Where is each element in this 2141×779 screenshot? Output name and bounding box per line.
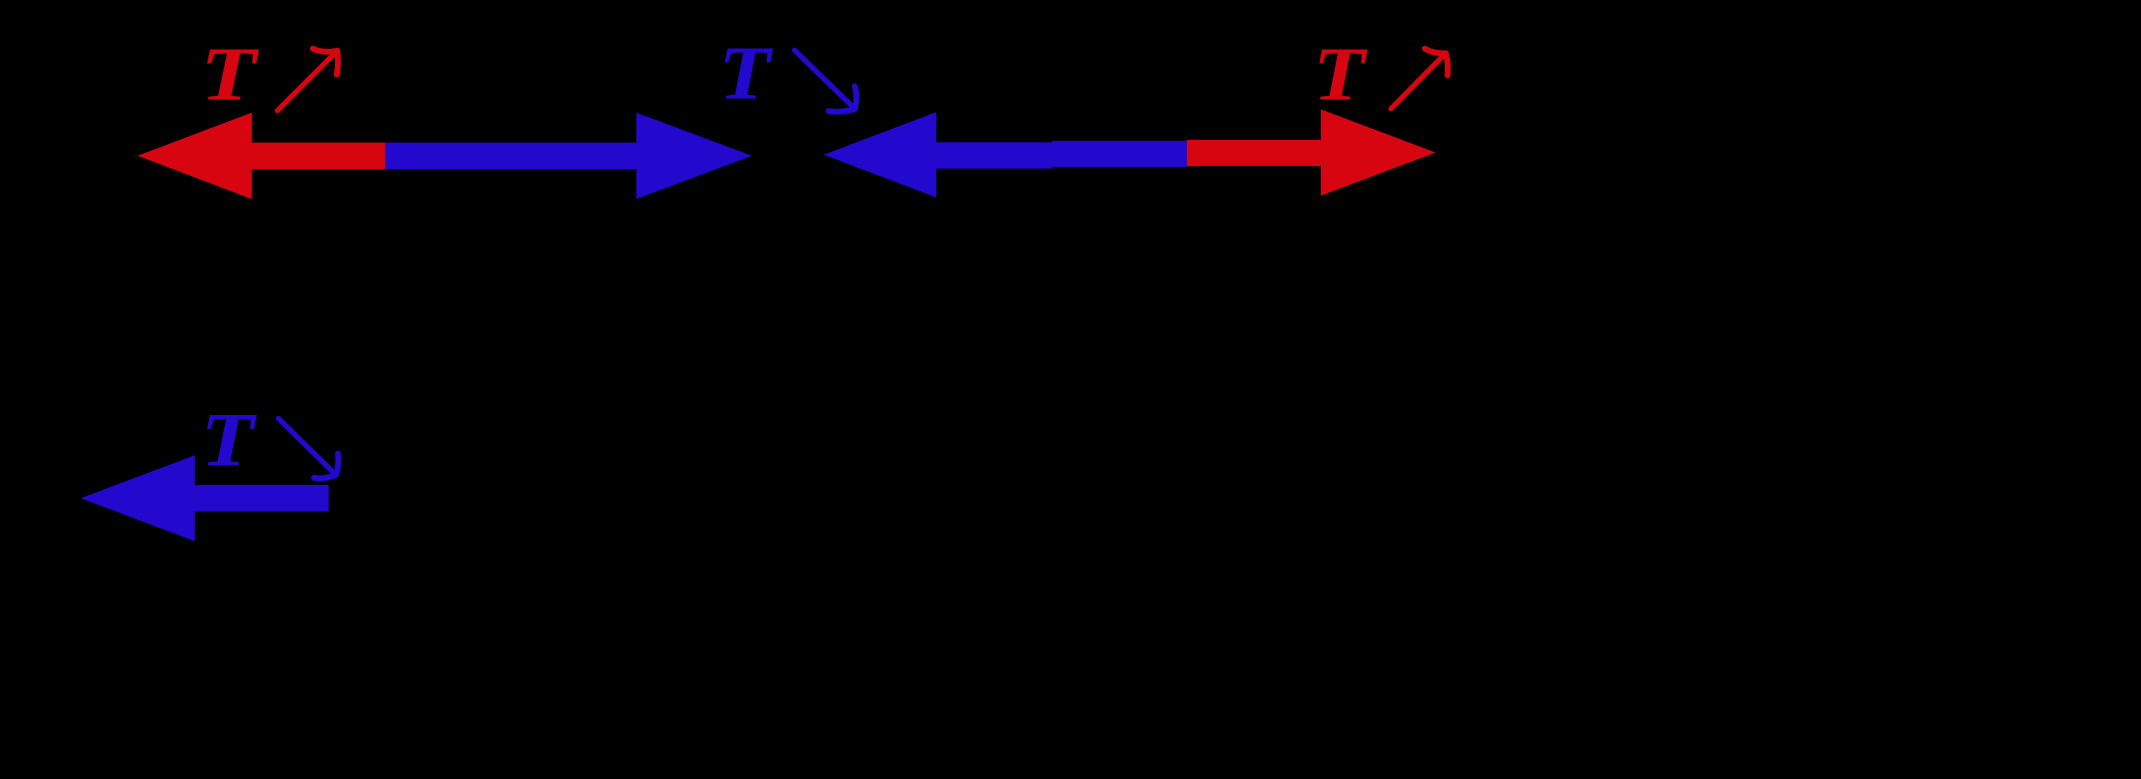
svg-text:T: T: [1313, 33, 1368, 117]
tension arrow red right (top-right) : head: [1321, 109, 1436, 195]
rope blue left arrow (top-middle right) : shaft right part: [1052, 141, 1187, 167]
rope blue left arrow (top-middle right) : shaft: [934, 142, 1052, 168]
label arrow red up-right (top-left): [278, 49, 339, 111]
svg-text:T: T: [719, 32, 774, 116]
tension arrow blue left (bottom) : shaft: [192, 485, 328, 512]
tension arrow blue left (bottom) : head: [81, 455, 195, 541]
svg-text:T: T: [201, 33, 260, 117]
tension arrow red left (top-left) : head: [138, 113, 252, 199]
svg-text:T: T: [201, 398, 257, 482]
tension arrow red right (top-right) : shaft: [1187, 140, 1323, 166]
label arrow blue down-right (bottom): [278, 418, 338, 478]
rope blue right arrow (top-middle) : head: [636, 113, 752, 199]
rope blue right arrow (top-middle) : shaft: [385, 143, 638, 169]
rope blue left arrow (top-middle right) : head: [824, 112, 937, 197]
label arrow red up-right (top-right): [1391, 49, 1448, 109]
label arrow blue down-right (top-middle): [795, 50, 857, 112]
tension arrow red left (top-left) : shaft: [249, 143, 385, 169]
